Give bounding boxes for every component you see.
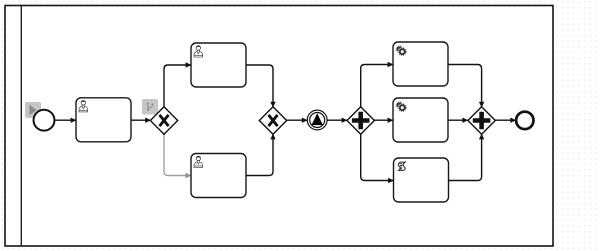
service gears icon T4 xyxy=(397,46,407,56)
wire task6 to gateway4 xyxy=(449,134,482,180)
user icon T1 xyxy=(79,100,88,112)
wire gateway3 to task4 xyxy=(361,65,393,108)
wire gateway2 to signal event xyxy=(287,119,307,121)
play overlay badge at start xyxy=(25,102,41,118)
wire signal event to gateway3 xyxy=(327,119,347,121)
start event xyxy=(34,110,55,131)
task T2 (user) xyxy=(191,43,246,87)
task T4 (service) xyxy=(393,42,448,86)
end event xyxy=(516,112,533,129)
user icon T3 xyxy=(194,156,203,168)
task T5 (service) xyxy=(393,98,448,142)
signal intermediate throw event xyxy=(307,110,327,130)
task T1 (user) xyxy=(76,98,131,142)
wire gateway4 to end event xyxy=(495,119,515,121)
wire gateway3 to task5 xyxy=(374,119,392,121)
service gears icon T5 xyxy=(397,102,407,112)
wire gateway1 to task3 (gray) xyxy=(164,134,191,175)
wire start to task1 xyxy=(54,119,76,121)
task T3 (user) xyxy=(191,154,246,198)
pool header divider xyxy=(20,6,22,247)
task T6 (script) xyxy=(394,158,449,202)
wire task2 to gateway2 xyxy=(246,65,273,107)
fork overlay badge at gateway1 xyxy=(142,99,158,115)
gateway G3 parallel xyxy=(347,107,374,134)
wire gateway1 to task2 xyxy=(164,65,191,107)
script icon T6 xyxy=(398,162,405,170)
gateway G2 exclusive xyxy=(259,107,286,134)
wire gateway3 to task6 xyxy=(361,134,394,180)
wire task4 to gateway4 xyxy=(448,65,482,107)
wire task3 to gateway2 xyxy=(246,134,273,175)
wire task1 to gateway1 xyxy=(131,119,150,121)
wire task5 to gateway4 xyxy=(448,119,468,121)
gateway G1 exclusive xyxy=(150,107,177,134)
user icon T2 xyxy=(194,46,203,58)
gateway G4 parallel join xyxy=(468,107,495,134)
